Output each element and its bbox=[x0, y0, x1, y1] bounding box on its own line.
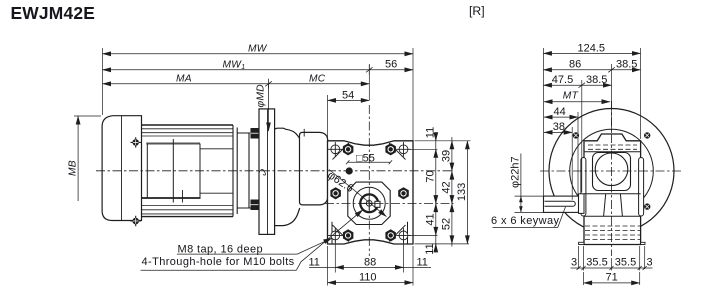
flange screw top-left bbox=[573, 133, 579, 139]
hex bolt top-right bbox=[385, 143, 396, 155]
dim 47.5 and 38.5 bbox=[543, 84, 611, 86]
dim 3 35.5 35.5 3 bbox=[571, 266, 653, 270]
ext lines bottom of face bbox=[328, 240, 414, 286]
output shaft bbox=[544, 196, 579, 212]
svg-text:56: 56 bbox=[385, 59, 397, 71]
through-hole bottom-left bbox=[328, 228, 343, 243]
housing joint line bbox=[584, 151, 641, 153]
input housing bbox=[300, 132, 328, 205]
dim MA MC bbox=[103, 83, 370, 85]
svg-text:35.5: 35.5 bbox=[586, 256, 607, 268]
output boss circle bbox=[353, 187, 385, 219]
dim 110 bbox=[328, 282, 414, 284]
dim 71 bbox=[584, 282, 640, 284]
svg-text:MW: MW bbox=[248, 43, 268, 54]
svg-text:11: 11 bbox=[309, 256, 320, 268]
svg-text:MW1: MW1 bbox=[223, 59, 246, 71]
svg-text:52: 52 bbox=[441, 218, 453, 230]
shaft keyway slot bbox=[545, 201, 576, 206]
bottom fins hidden bbox=[585, 226, 640, 240]
face corner chamfer BL bbox=[333, 225, 350, 242]
dim MB bbox=[74, 115, 101, 117]
bearing boss square bbox=[593, 153, 631, 191]
side rib right bbox=[639, 158, 644, 217]
svg-text:EWJM42E: EWJM42E bbox=[11, 3, 96, 23]
svg-text:124.5: 124.5 bbox=[578, 42, 606, 54]
centerline right view horizontal bbox=[540, 170, 683, 172]
dim 38 bbox=[544, 131, 572, 133]
svg-text:39: 39 bbox=[441, 150, 453, 162]
svg-text:88: 88 bbox=[364, 256, 376, 268]
svg-text:MB: MB bbox=[68, 160, 79, 176]
dim phi22h7 bbox=[515, 196, 544, 212]
dim MW bbox=[103, 53, 414, 55]
wheel housing lines bbox=[584, 194, 641, 216]
face corner chamfer BR bbox=[389, 225, 406, 242]
svg-text:3: 3 bbox=[647, 256, 653, 268]
dim 44 bbox=[544, 116, 578, 118]
centerline motor axis bbox=[96, 170, 454, 172]
hex bolt top-left bbox=[343, 143, 354, 155]
svg-text:110: 110 bbox=[359, 271, 377, 283]
output keyway square bbox=[375, 201, 380, 207]
hex bolt mid-right bbox=[398, 187, 409, 199]
chain line 3: 133 bbox=[466, 141, 468, 244]
svg-text:11: 11 bbox=[417, 256, 428, 268]
svg-text:38.5: 38.5 bbox=[616, 59, 637, 71]
face corner chamfer TR bbox=[389, 143, 406, 160]
input bore circle bbox=[595, 153, 628, 186]
ext line right datum bbox=[412, 48, 414, 141]
svg-text:6 x 6 keyway: 6 x 6 keyway bbox=[491, 215, 559, 227]
svg-text:38.5: 38.5 bbox=[586, 74, 607, 86]
side rib left bbox=[581, 158, 586, 217]
bell housing adapter bbox=[275, 128, 301, 225]
chain line 2: 39 42 52 bbox=[451, 137, 453, 247]
svg-text:□55: □55 bbox=[356, 153, 375, 165]
svg-text:MT: MT bbox=[563, 90, 579, 101]
motor frame fins bbox=[142, 125, 234, 217]
right view bottom ext lines bbox=[579, 246, 645, 285]
body foot left bbox=[579, 242, 584, 244]
dim phiMD bbox=[268, 84, 270, 131]
motor end bell bbox=[237, 128, 259, 215]
dim 124.5 bbox=[543, 52, 640, 54]
svg-text:φ22h7: φ22h7 bbox=[509, 156, 521, 188]
svg-text:11: 11 bbox=[424, 243, 436, 254]
svg-text:41: 41 bbox=[425, 213, 437, 225]
svg-text:M8 tap, 16 deep: M8 tap, 16 deep bbox=[178, 243, 264, 255]
waist edges bbox=[604, 194, 623, 216]
dim 54 bbox=[328, 99, 370, 101]
ext line left datum bbox=[102, 48, 104, 115]
dim MW1 and 56 bbox=[103, 69, 414, 71]
svg-text:47.5: 47.5 bbox=[552, 74, 573, 86]
svg-text:35.5: 35.5 bbox=[615, 256, 636, 268]
svg-text:11: 11 bbox=[425, 127, 437, 138]
gearbox body right view bbox=[584, 134, 641, 245]
dim square55 bbox=[346, 160, 392, 164]
through-hole top-right bbox=[396, 142, 411, 157]
through-hole bottom-right bbox=[396, 228, 411, 243]
fan cover screw top bbox=[131, 137, 141, 147]
flange screw bottom-right bbox=[644, 204, 650, 210]
svg-text:[R]: [R] bbox=[469, 4, 485, 18]
gearbox face outline bbox=[328, 141, 414, 244]
svg-text:38: 38 bbox=[553, 121, 565, 133]
centerline output axis vertical bbox=[368, 105, 370, 256]
flange screw top-right bbox=[644, 133, 650, 139]
svg-text:MC: MC bbox=[309, 73, 326, 84]
motor frame mid block bbox=[147, 139, 200, 203]
centerline output axis horizontal bbox=[325, 203, 454, 205]
right side chain ext lines bbox=[409, 141, 471, 244]
motor flange bolt top bbox=[251, 128, 259, 139]
motor flange bolt bottom bbox=[251, 200, 259, 211]
chain line 1: 11 70 41 11 bbox=[435, 134, 437, 252]
gear flange plate bbox=[259, 109, 275, 234]
hex bolt bottom-left bbox=[343, 229, 354, 241]
face corner chamfer TL bbox=[333, 143, 350, 160]
motor flange outer circle bbox=[549, 109, 674, 234]
svg-text:φMD: φMD bbox=[256, 84, 267, 108]
body foot right bbox=[641, 242, 645, 244]
through-hole top-left bbox=[328, 142, 343, 157]
output boss octagon bbox=[348, 182, 390, 224]
hex bolt bottom-right bbox=[385, 229, 396, 241]
svg-text:MA: MA bbox=[176, 73, 192, 84]
face feet inner edges bbox=[332, 222, 408, 244]
output boss ring bbox=[579, 194, 585, 214]
svg-text:44: 44 bbox=[554, 106, 566, 118]
motor flange register circle bbox=[570, 129, 654, 213]
hex bolt mid-left bbox=[330, 187, 341, 199]
dim MT bbox=[544, 101, 610, 103]
fan cover bbox=[102, 116, 141, 221]
hidden fin lines top bbox=[588, 145, 637, 149]
motor stator edges bbox=[146, 143, 200, 145]
fan cover screw bottom bbox=[131, 216, 141, 226]
svg-text:4-Through-hole for M10 bolts: 4-Through-hole for M10 bolts bbox=[142, 256, 295, 268]
leader phi62.6 bbox=[329, 170, 386, 217]
output center mark bbox=[363, 197, 377, 210]
svg-text:42: 42 bbox=[441, 181, 453, 193]
svg-text:86: 86 bbox=[569, 59, 581, 71]
centerline right view vertical bbox=[611, 101, 613, 256]
right view top ext lines bbox=[543, 48, 640, 200]
svg-text:54: 54 bbox=[342, 89, 354, 101]
svg-text:70: 70 bbox=[425, 170, 437, 182]
worm end plug bbox=[346, 167, 353, 174]
svg-text:133: 133 bbox=[456, 183, 468, 201]
output bore phi22 bbox=[360, 194, 378, 212]
shaft break symbol bbox=[259, 169, 265, 175]
svg-text:3: 3 bbox=[571, 256, 577, 268]
dim 11 88 11 bottom bbox=[309, 266, 431, 268]
flange screw bottom-left bbox=[573, 204, 579, 210]
dim 86 and 38.5 bbox=[543, 69, 640, 71]
svg-text:71: 71 bbox=[606, 272, 618, 284]
ext line output center top bbox=[368, 64, 370, 100]
